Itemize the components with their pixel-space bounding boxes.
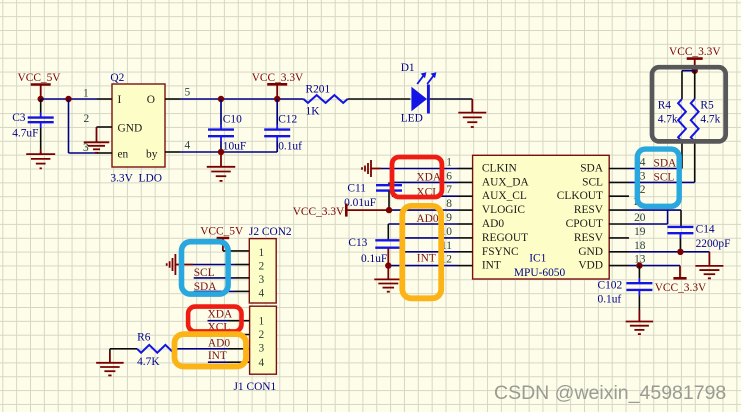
svg-text:SCL: SCL xyxy=(654,171,675,183)
svg-text:2: 2 xyxy=(259,329,265,341)
net label SDA + wire xyxy=(629,158,682,170)
svg-text:0.1uf: 0.1uf xyxy=(598,294,622,306)
svg-text:VCC_3.3V: VCC_3.3V xyxy=(669,46,721,58)
svg-text:C3: C3 xyxy=(12,112,26,124)
svg-text:I: I xyxy=(118,94,122,106)
power VCC_3.3V at VLOGIC (sideways) xyxy=(293,204,389,218)
Q2 pin 5 stub xyxy=(165,87,191,100)
junction dot C14/GND xyxy=(677,249,683,255)
Q2 pin 2 stub (GND) xyxy=(84,113,113,127)
ground below C3 xyxy=(26,152,55,168)
capacitor C3 xyxy=(12,99,54,154)
capacitor C12 xyxy=(264,99,302,152)
svg-text:SCL: SCL xyxy=(582,176,603,188)
watermark xyxy=(494,382,726,404)
svg-text:D1: D1 xyxy=(401,62,415,74)
svg-text:1: 1 xyxy=(446,157,452,169)
svg-text:7: 7 xyxy=(446,184,452,196)
svg-text:REGOUT: REGOUT xyxy=(482,232,528,244)
wire VDD row xyxy=(629,265,680,267)
svg-text:19: 19 xyxy=(634,226,646,238)
svg-text:1: 1 xyxy=(83,88,89,100)
svg-text:1: 1 xyxy=(259,316,265,328)
ground at pin 18 xyxy=(695,252,723,279)
wire CLKIN xyxy=(381,168,458,170)
svg-text:CLKOUT: CLKOUT xyxy=(557,190,603,202)
svg-text:C12: C12 xyxy=(278,114,297,126)
svg-text:VCC_5V: VCC_5V xyxy=(18,72,62,84)
svg-text:VCC_3.3V: VCC_3.3V xyxy=(655,282,707,294)
wire R6 left xyxy=(110,349,137,353)
svg-text:6: 6 xyxy=(446,170,452,182)
annotation blue box (MPU SDA/SCL) xyxy=(637,149,679,206)
svg-text:0.1uF: 0.1uF xyxy=(361,253,387,265)
junction dot INT/C13 xyxy=(385,262,391,268)
svg-text:5: 5 xyxy=(185,87,191,99)
Q2 pin 1 stub xyxy=(83,88,112,100)
net label XDA + wire xyxy=(392,172,458,184)
svg-text:VCC_5V: VCC_5V xyxy=(200,226,244,238)
wire J2 pin 2 xyxy=(193,264,249,266)
svg-text:INT: INT xyxy=(482,260,501,272)
svg-text:C102: C102 xyxy=(598,280,623,292)
junction dot B (en branch) xyxy=(65,96,71,102)
junction dot C10 bottom xyxy=(218,149,224,155)
ground at CLKIN (sideways) xyxy=(362,160,381,177)
wire RESV row to C14/CPOUT xyxy=(629,210,681,226)
capacitor C14 xyxy=(667,224,730,252)
Q2 pin 3 stub (en) xyxy=(97,152,112,154)
net label SCL + wire xyxy=(629,171,695,183)
wire AD0-REGOUT-FSYNC tie xyxy=(402,224,458,252)
svg-text:VCC_3.3V: VCC_3.3V xyxy=(293,206,345,218)
svg-text:J2 CON2: J2 CON2 xyxy=(249,226,292,238)
svg-text:LED: LED xyxy=(401,113,423,125)
svg-text:4: 4 xyxy=(640,157,646,169)
svg-text:O: O xyxy=(147,94,155,106)
svg-text:R4: R4 xyxy=(658,99,672,111)
MPU left pin stubs and numbers 1,6,7,8,9,10,11,12 xyxy=(441,157,473,266)
svg-text:20: 20 xyxy=(634,212,646,224)
junction dot VDD/C102 xyxy=(636,262,642,268)
svg-text:2: 2 xyxy=(640,184,646,196)
wire R201 to LED xyxy=(348,98,411,100)
net label SCL at J2 + wire xyxy=(194,267,250,279)
ground at J2 pin 2 (sideways) xyxy=(167,254,193,275)
svg-text:R201: R201 xyxy=(306,84,331,96)
capacitor C102 xyxy=(598,266,653,310)
resistor R4 xyxy=(658,99,686,142)
svg-text:9: 9 xyxy=(446,212,452,224)
wire LED cathode xyxy=(430,98,473,100)
wire R4 top xyxy=(682,71,695,99)
svg-text:AUX_DA: AUX_DA xyxy=(482,176,530,188)
svg-text:AUX_CL: AUX_CL xyxy=(482,190,527,202)
svg-text:CLKIN: CLKIN xyxy=(482,163,517,175)
ground at Q2 pin 2 xyxy=(83,127,109,154)
svg-text:18: 18 xyxy=(634,240,646,252)
svg-text:8: 8 xyxy=(446,198,452,210)
svg-text:3: 3 xyxy=(83,142,89,154)
net label XCL + wire xyxy=(392,187,458,199)
svg-text:CPOUT: CPOUT xyxy=(566,218,603,230)
svg-text:IC1: IC1 xyxy=(529,253,546,265)
junction dot VLOGIC/C11 xyxy=(386,207,392,213)
ground below C102 xyxy=(626,310,654,334)
resistor R201 xyxy=(304,84,348,118)
wire R4 bottom to SDA xyxy=(681,142,683,169)
ground right of LED xyxy=(458,99,486,127)
ground at R6 xyxy=(96,353,124,375)
svg-text:0.1uf: 0.1uf xyxy=(278,140,302,152)
svg-text:3: 3 xyxy=(259,274,265,286)
net label INT + wire xyxy=(388,253,457,266)
regulator Q2 (3.3V LDO) xyxy=(110,72,165,185)
power VCC_5V (top left) xyxy=(18,72,62,99)
svg-text:GND: GND xyxy=(118,123,143,135)
svg-text:GND: GND xyxy=(578,246,603,258)
svg-text:1K: 1K xyxy=(306,105,321,117)
svg-text:SDA: SDA xyxy=(580,163,604,175)
ground below C10 xyxy=(207,152,236,181)
junction dot C10 top xyxy=(218,96,224,102)
svg-text:INT: INT xyxy=(417,253,436,265)
wire R5 bottom to SCL xyxy=(694,142,696,183)
net label INT at J1 + wire xyxy=(208,350,250,362)
svg-text:VCC_3.3V: VCC_3.3V xyxy=(252,72,304,84)
wire GND row xyxy=(629,251,709,253)
svg-text:0.01uF: 0.01uF xyxy=(344,197,376,209)
annotation red box (J1 XDA/XCL) xyxy=(188,307,241,332)
annotation orange box (J1 AD0/INT) xyxy=(175,334,247,366)
svg-text:C11: C11 xyxy=(347,182,366,194)
svg-text:3.3V LDO: 3.3V LDO xyxy=(110,173,162,185)
ground below C13 xyxy=(374,266,402,292)
svg-text:4.7K: 4.7K xyxy=(137,356,160,368)
svg-text:4.7k: 4.7k xyxy=(700,113,720,125)
svg-text:4: 4 xyxy=(259,357,265,369)
net label XCL at J1 + wire xyxy=(208,322,250,335)
wire en branch xyxy=(69,99,98,153)
net label AD0 + wire xyxy=(388,213,457,225)
wire Q2 by to C12 xyxy=(180,151,277,153)
wire VCC_5V to Q2 pin 1 xyxy=(41,98,97,100)
svg-text:CSDN @weixin_45981798: CSDN @weixin_45981798 xyxy=(494,382,726,404)
capacitor C11 xyxy=(344,182,402,210)
power VCC_5V at J2 xyxy=(200,226,244,251)
resistor R6 xyxy=(137,331,177,367)
MPU right pin stubs and numbers 4,3,2,1,20,19,18,13 xyxy=(609,157,646,266)
power VCC_3.3V (top middle) xyxy=(252,72,304,99)
svg-text:2: 2 xyxy=(84,113,90,125)
net label SDA at J2 + wire xyxy=(194,281,250,293)
svg-text:C13: C13 xyxy=(348,237,367,249)
wire Q2 output xyxy=(180,98,304,100)
svg-text:2200pF: 2200pF xyxy=(696,238,731,250)
annotation blue box (J2 SCL/SDA) xyxy=(182,242,229,294)
LED D1 xyxy=(401,62,437,125)
svg-text:R5: R5 xyxy=(700,99,714,111)
svg-text:4: 4 xyxy=(259,288,265,300)
svg-text:XDA: XDA xyxy=(208,309,233,321)
junction dot C12 top xyxy=(274,96,280,102)
Q2 pin 4 stub (by) xyxy=(165,140,191,153)
net label XDA at J1 + wire xyxy=(208,309,250,321)
capacitor C10 xyxy=(208,99,246,152)
net label AD0 at J1 + wire xyxy=(178,337,250,349)
svg-text:1: 1 xyxy=(259,247,265,259)
svg-text:C14: C14 xyxy=(696,224,715,236)
wire J2 pin 1 xyxy=(223,250,249,252)
connector J2 CON2 body xyxy=(249,226,292,303)
svg-text:4.7uF: 4.7uF xyxy=(12,127,38,139)
annotation orange box (MPU AD0/INT) xyxy=(402,206,441,298)
svg-text:VDD: VDD xyxy=(578,260,603,272)
svg-text:3: 3 xyxy=(259,343,265,355)
resistor R5 xyxy=(691,71,721,142)
svg-text:3: 3 xyxy=(640,170,646,182)
power VCC_3.3V at VDD (pointing down) xyxy=(655,266,707,294)
annotation gray box (R4/R5) xyxy=(652,67,726,141)
svg-text:VLOGIC: VLOGIC xyxy=(482,204,525,216)
svg-text:by: by xyxy=(146,149,158,161)
power VCC_3.3V (top right) xyxy=(669,46,721,71)
capacitor C13 xyxy=(348,224,401,266)
svg-text:AD0: AD0 xyxy=(208,337,230,349)
svg-text:FSYNC: FSYNC xyxy=(482,246,519,258)
IC U1 MPU-6050 body xyxy=(473,155,610,279)
svg-text:R6: R6 xyxy=(137,331,151,343)
svg-text:10uF: 10uF xyxy=(223,140,246,152)
junction dot A (VCC_5V tap) xyxy=(38,96,44,102)
svg-text:J1 CON1: J1 CON1 xyxy=(234,381,277,393)
annotation red box (MPU XDA/XCL) xyxy=(392,157,442,197)
svg-text:4.7k: 4.7k xyxy=(658,113,678,125)
wire CPOUT xyxy=(629,223,668,225)
svg-text:INT: INT xyxy=(208,350,227,362)
svg-text:AD0: AD0 xyxy=(482,218,504,230)
svg-text:RESV: RESV xyxy=(574,232,604,244)
svg-text:2: 2 xyxy=(259,261,265,273)
connector J1 CON1 body xyxy=(234,306,277,393)
svg-text:en: en xyxy=(118,149,129,161)
wire VLOGIC xyxy=(389,209,458,211)
svg-text:MPU-6050: MPU-6050 xyxy=(514,267,566,279)
svg-text:RESV: RESV xyxy=(574,204,604,216)
svg-text:Q2: Q2 xyxy=(110,72,124,84)
junction dot R5 top xyxy=(692,68,698,74)
svg-text:C10: C10 xyxy=(223,114,242,126)
svg-text:4: 4 xyxy=(185,140,191,152)
